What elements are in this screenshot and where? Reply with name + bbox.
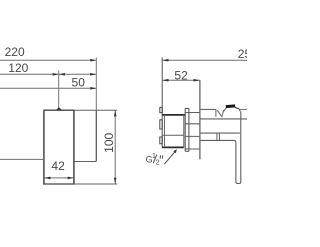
chained dimension line (lower, y=88.3): [0, 87, 96, 89]
svg-text:220: 220: [5, 45, 25, 59]
dimension line 220: [0, 59, 96, 61]
pipe lines through wall: [185, 113, 200, 150]
wall line left of spout: [0, 158, 44, 160]
dimension line (cropped label 2..): [162, 59, 247, 61]
spout rectangle front view: [44, 110, 74, 183]
dimension line 50: [59, 73, 97, 75]
valve inlet tab 1: [160, 107, 162, 112]
nut strip: [185, 108, 189, 151]
V notch at lever joint: [215, 109, 217, 117]
lever bar: [236, 111, 241, 183]
extension line right (x=96.3): [95, 58, 97, 111]
wall line (x=199.9): [199, 80, 201, 159]
valve inlet tab 3: [160, 137, 162, 144]
spout underside line: [200, 132, 240, 134]
leader line with arrow: [164, 151, 176, 165]
lower body line with corner into lever: [200, 140, 236, 142]
valve inlet tab 2: [160, 120, 162, 129]
svg-text:50: 50: [72, 76, 86, 90]
extension line center (x=58.7) with down arrow: [58, 71, 60, 110]
valve inner seam: [164, 115, 166, 147]
extension line / valve left face (x=162.2): [161, 58, 163, 148]
svg-text:120: 120: [8, 61, 28, 75]
body lower line (full width): [200, 118, 247, 120]
valve body mid line: [162, 134, 184, 136]
dimension 100 (vertical): [114, 111, 116, 184]
valve body right edge: [183, 115, 185, 147]
dimension line 120: [0, 73, 58, 75]
handle bottom edge front view: [74, 161, 96, 163]
joint ticks: [217, 133, 220, 140]
svg-text:25: 25: [238, 47, 247, 61]
handle knob: [224, 107, 228, 112]
valve body bottom edge (dark): [162, 146, 184, 148]
body top line to image edge: [240, 108, 247, 110]
valve body top edge (dark): [162, 114, 185, 116]
svg-text:42: 42: [51, 159, 65, 173]
top edge line (spout top + extension): [44, 109, 75, 111]
bottom edge line (spout bottom + extension): [43, 183, 75, 185]
svg-text:2: 2: [156, 157, 160, 166]
body top edge right of wall: [200, 108, 216, 110]
svg-text:100: 100: [102, 132, 116, 152]
